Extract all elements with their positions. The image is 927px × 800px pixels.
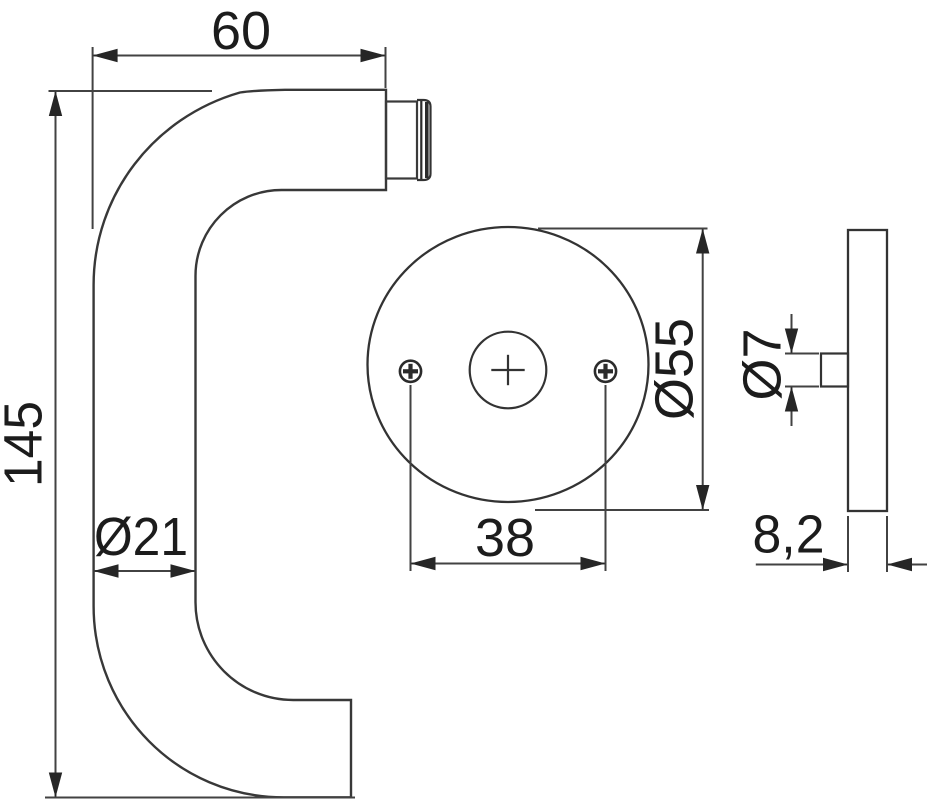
arrow 38 left: [411, 557, 436, 570]
dimension line d21: [94, 570, 196, 572]
spindle square (side view): [821, 354, 848, 387]
arrow 145 bottom: [49, 773, 62, 798]
hub center cross: [491, 369, 524, 371]
arrow d21 right: [171, 564, 196, 577]
extension line from right screw: [605, 385, 607, 571]
arrow d55 bottom: [696, 485, 709, 510]
dim 8,2 right arrow line: [887, 564, 927, 566]
extension line bottom for d7: [785, 386, 819, 388]
spindle cap thick rim: [420, 101, 422, 179]
extension line top for dim 145: [49, 90, 213, 92]
arrow 60 left: [93, 49, 118, 62]
svg-text:145: 145: [0, 401, 54, 487]
lever handle outline (side view): [94, 90, 386, 798]
extension line from left screw: [410, 385, 412, 571]
extension line left for dim 8,2: [847, 516, 849, 572]
extension line bottom for dim 145: [45, 797, 355, 799]
dimension line 60: [93, 55, 386, 57]
screw left: [400, 361, 421, 382]
dim 8,2 left arrow line: [756, 564, 848, 566]
d7 upper arrow line: [791, 314, 793, 354]
screw right: [595, 361, 616, 382]
rose plate front view: outer circle: [368, 227, 649, 502]
arrow 38 right: [581, 557, 606, 570]
svg-text:Ø55: Ø55: [645, 318, 705, 420]
svg-text:Ø7: Ø7: [733, 328, 793, 400]
arrow 60 right: [361, 49, 386, 62]
extension line right for dim 8,2: [886, 516, 888, 572]
svg-text:60: 60: [211, 1, 271, 61]
dimension line d55: [702, 229, 704, 511]
extension line left for dim 60: [92, 47, 94, 229]
spindle cap (rounded end): [417, 100, 431, 180]
dimension line 145: [55, 91, 57, 798]
arrow d55 top: [696, 229, 709, 254]
extension line right for dim 60: [385, 47, 387, 88]
arrow 145 top: [49, 91, 62, 116]
svg-text:Ø21: Ø21: [94, 507, 188, 567]
hub circle: [470, 332, 547, 409]
spindle collar on handle neck: [386, 102, 417, 179]
arrow d21 left: [94, 564, 119, 577]
d7 lower arrow line: [791, 387, 793, 427]
dimension line 38: [411, 563, 606, 565]
rose plate side view: [848, 230, 887, 511]
svg-text:38: 38: [475, 508, 535, 568]
extension line bottom for d55: [535, 509, 709, 511]
extension line top for d7: [785, 353, 819, 355]
extension line top for d55: [538, 228, 708, 230]
svg-text:8,2: 8,2: [753, 505, 825, 565]
